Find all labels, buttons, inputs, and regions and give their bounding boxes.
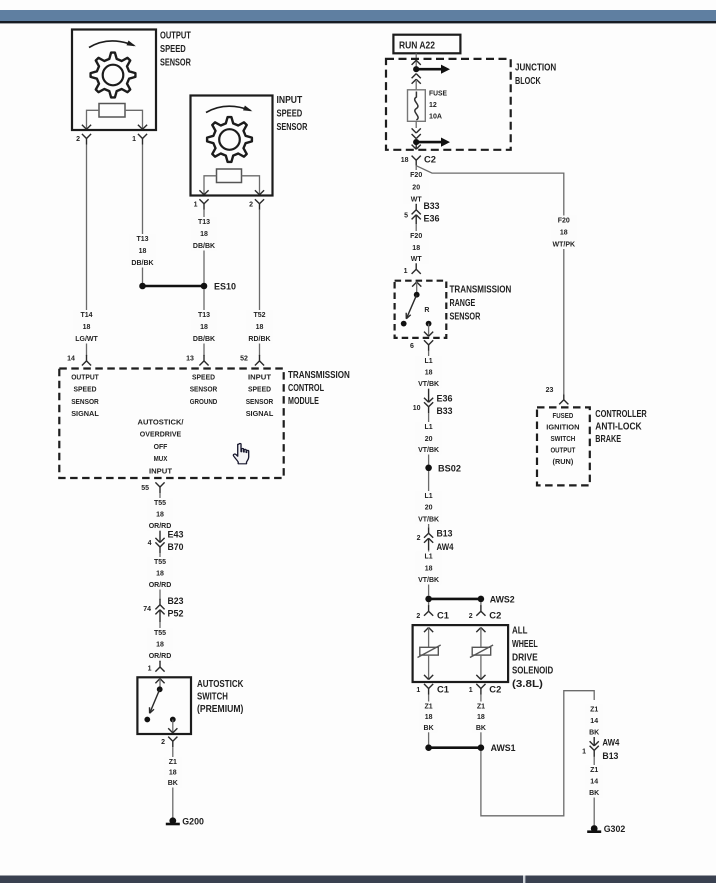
svg-text:1: 1 <box>148 666 152 673</box>
label L1 20 VT/BK (2) <box>416 491 442 524</box>
TRS entry arrow <box>412 282 417 287</box>
wire to TRS (F20 18 WT) <box>415 224 417 264</box>
svg-text:23: 23 <box>546 387 554 394</box>
connector pin 1 of output sensor <box>138 134 143 139</box>
svg-text:F20: F20 <box>410 172 422 179</box>
svg-text:TRANSMISSION: TRANSMISSION <box>288 370 350 381</box>
junction block top feed arrow <box>419 68 442 71</box>
junction block bottom feed arrow <box>419 141 442 144</box>
branch wire to controller anti-lock brake <box>416 166 564 395</box>
svg-text:18: 18 <box>560 230 568 237</box>
svg-text:18: 18 <box>200 231 208 238</box>
input speed sensor box <box>191 96 273 196</box>
splice dot left <box>139 283 146 290</box>
svg-text:SENSOR: SENSOR <box>160 58 191 69</box>
label F20 20 WT <box>403 170 429 204</box>
svg-text:BRAKE: BRAKE <box>595 434 621 445</box>
splice ES10 dot <box>201 283 208 290</box>
svg-text:B13: B13 <box>602 751 618 761</box>
svg-text:12: 12 <box>429 102 437 109</box>
svg-text:TRANSMISSION: TRANSMISSION <box>450 285 512 296</box>
AWS1 dot left <box>425 744 432 751</box>
TRS R wire + exit arrow <box>428 324 430 337</box>
solenoid C1 bottom connector <box>424 684 429 689</box>
svg-text:B70: B70 <box>168 542 184 552</box>
svg-text:18: 18 <box>200 324 208 331</box>
svg-text:(3.8L): (3.8L) <box>512 679 543 690</box>
TCM pin 13 connector <box>203 355 205 361</box>
solenoid left exit wire + arrow <box>428 655 430 679</box>
label Z1 18 BK (autostick) <box>164 757 182 788</box>
svg-text:BK: BK <box>476 725 486 732</box>
svg-text:B23: B23 <box>168 596 184 606</box>
autostick output contact <box>170 717 176 723</box>
TRS common contact dot <box>414 292 420 298</box>
wire Z1 18 BK to ground <box>172 747 174 817</box>
TRS R contact dot <box>426 321 432 327</box>
svg-text:RANGE: RANGE <box>450 298 476 309</box>
svg-text:1: 1 <box>132 136 136 143</box>
solenoid right entry arrow <box>476 628 481 633</box>
svg-text:L1: L1 <box>425 493 433 500</box>
wire L1 18 VT/BK to AWS2 <box>428 550 430 596</box>
connector C2 of junction block <box>412 156 417 161</box>
svg-text:14: 14 <box>590 779 598 786</box>
wire L1 18 VT/BK below TRS <box>428 351 430 389</box>
svg-text:L1: L1 <box>425 554 433 561</box>
svg-text:WHEEL: WHEEL <box>512 639 538 650</box>
autostick lever target contact <box>144 717 150 723</box>
TRS pin 1 connector <box>415 263 417 269</box>
controller anti-lock brake dashed box <box>537 407 590 485</box>
svg-text:VT/BK: VT/BK <box>418 577 439 584</box>
wire resistor to pin 2 <box>87 110 100 128</box>
svg-text:VT/BK: VT/BK <box>418 447 439 454</box>
svg-text:Z1: Z1 <box>590 707 598 714</box>
label T55 18 OR/RD (1) <box>147 498 173 531</box>
svg-text:(RUN): (RUN) <box>553 459 574 466</box>
svg-text:2: 2 <box>417 535 421 542</box>
pin 1 exit arrow (input) <box>199 190 204 195</box>
svg-text:20: 20 <box>425 505 433 512</box>
svg-text:SPEED: SPEED <box>74 385 98 394</box>
wire resistor to pin 1 (input) <box>204 176 217 194</box>
wire T14 18 LG/WT pin2 to TCM pin 14 <box>86 145 88 356</box>
svg-text:BK: BK <box>168 780 178 787</box>
label T13 18 DB/BK (input sensor) <box>191 217 217 251</box>
svg-text:JUNCTION: JUNCTION <box>515 63 556 74</box>
output speed sensor box <box>72 30 156 131</box>
svg-text:E43: E43 <box>168 530 184 540</box>
label T13 18 DB/BK (output sensor) <box>130 234 156 268</box>
svg-text:GROUND: GROUND <box>190 397 218 406</box>
wire to fuse <box>415 81 417 90</box>
svg-text:CONTROL: CONTROL <box>288 383 324 394</box>
svg-text:18: 18 <box>156 642 164 649</box>
bottom status bar <box>0 876 716 883</box>
label F20 18 WT (2) <box>403 231 429 264</box>
junction block top splice dot <box>413 66 419 72</box>
svg-text:SPEED: SPEED <box>160 44 186 55</box>
connector pin 2 of output sensor <box>82 134 87 139</box>
svg-text:18: 18 <box>156 571 164 578</box>
splice AWS2 jumper <box>429 598 481 601</box>
svg-text:20: 20 <box>425 436 433 443</box>
label L1 18 VT/BK (2) <box>416 552 442 585</box>
svg-text:2: 2 <box>469 613 473 620</box>
TCM pin 52 connector <box>259 355 261 361</box>
left solenoid coil <box>420 647 439 655</box>
wire T55 pin 55 down <box>159 493 161 531</box>
solenoid C2 top connector <box>480 602 482 606</box>
input speed sensor gear <box>207 117 252 162</box>
solenoid left entry arrow <box>424 628 429 633</box>
junction block exit arrow <box>415 145 417 149</box>
svg-text:14: 14 <box>590 718 598 725</box>
svg-text:18: 18 <box>156 512 164 519</box>
svg-text:VT/BK: VT/BK <box>418 381 439 388</box>
svg-text:SPEED: SPEED <box>277 109 303 120</box>
connector RUN A22 box <box>393 35 460 54</box>
svg-text:18: 18 <box>425 370 433 377</box>
svg-text:B13: B13 <box>437 529 453 539</box>
AWS2 dot left <box>425 596 432 603</box>
svg-text:OUTPUT: OUTPUT <box>71 373 99 382</box>
AWS2 dot right <box>478 596 485 603</box>
output sensor rotation arrow <box>89 41 134 48</box>
svg-text:MODULE: MODULE <box>288 396 319 407</box>
svg-text:T55: T55 <box>154 500 166 507</box>
TRS lever end contact dot <box>401 321 407 327</box>
svg-text:DB/BK: DB/BK <box>131 260 153 267</box>
connector pin 1 of input sensor <box>199 199 204 204</box>
solenoid C1 top connector <box>428 602 430 606</box>
TCM pin 14 connector <box>86 355 88 361</box>
svg-text:AW4: AW4 <box>602 737 619 747</box>
svg-text:52: 52 <box>240 356 248 363</box>
mouse cursor <box>233 443 248 463</box>
svg-text:BK: BK <box>424 725 434 732</box>
wire T52 18 RD/BK input pin2 to TCM pin 52 <box>259 210 261 356</box>
connector B23 P52 <box>159 599 161 605</box>
svg-text:SENSOR: SENSOR <box>450 312 481 323</box>
label L1 20 VT/BK (1) <box>416 422 442 455</box>
ground G200 <box>169 817 176 824</box>
output speed sensor gear <box>91 53 136 98</box>
svg-text:SIGNAL: SIGNAL <box>71 409 99 418</box>
svg-text:18: 18 <box>83 324 91 331</box>
wire Z1 18 BK right to AWS1 <box>480 695 482 745</box>
svg-text:F20: F20 <box>410 233 422 240</box>
TRS switch lever <box>406 295 416 319</box>
svg-text:B33: B33 <box>424 201 440 211</box>
svg-text:T14: T14 <box>80 312 92 319</box>
svg-text:SPEED: SPEED <box>248 385 272 394</box>
autostick pin 2 connector <box>168 737 173 742</box>
wire resistor to pin 1 <box>125 110 143 128</box>
svg-text:SOLENOID: SOLENOID <box>512 666 553 677</box>
pin 2 exit arrow (input) <box>255 190 260 195</box>
svg-text:ANTI-LOCK: ANTI-LOCK <box>595 422 642 433</box>
svg-text:RUN A22: RUN A22 <box>399 40 435 51</box>
wire below fuse <box>415 121 417 128</box>
svg-text:2: 2 <box>416 613 420 620</box>
svg-text:AWS2: AWS2 <box>490 594 515 605</box>
svg-text:T13: T13 <box>136 236 148 243</box>
svg-text:13: 13 <box>186 356 194 363</box>
svg-text:DB/BK: DB/BK <box>193 336 215 343</box>
svg-text:SENSOR: SENSOR <box>71 397 99 406</box>
svg-text:L1: L1 <box>425 358 433 365</box>
svg-text:5: 5 <box>404 213 408 220</box>
svg-text:2: 2 <box>76 136 80 143</box>
svg-text:OR/RD: OR/RD <box>149 582 172 589</box>
svg-text:G302: G302 <box>604 824 626 835</box>
svg-text:SIGNAL: SIGNAL <box>246 409 274 418</box>
svg-text:18: 18 <box>256 324 264 331</box>
AWS1 dot right <box>478 744 485 751</box>
autostick pin 1 connector <box>159 661 161 667</box>
svg-text:Z1: Z1 <box>477 704 485 711</box>
double chevron above bottom splice <box>412 128 417 133</box>
double chevron below top splice <box>412 74 417 79</box>
svg-text:2: 2 <box>249 202 253 209</box>
wire T13 input pin1 to splice ES10 <box>203 210 205 283</box>
svg-text:F20: F20 <box>558 218 570 225</box>
svg-text:T55: T55 <box>154 630 166 637</box>
svg-text:74: 74 <box>143 606 151 613</box>
svg-text:1: 1 <box>582 749 586 756</box>
svg-text:FUSED: FUSED <box>553 413 574 420</box>
svg-text:1: 1 <box>404 268 408 275</box>
svg-text:SENSOR: SENSOR <box>246 397 274 406</box>
svg-text:OUTPUT: OUTPUT <box>160 30 191 41</box>
svg-text:20: 20 <box>412 185 420 192</box>
input sensor internal resistor <box>217 169 242 183</box>
label Z1 14 BK (upper) <box>585 705 603 738</box>
svg-text:B33: B33 <box>437 406 453 416</box>
wire L1 20 VT/BK to BS02 <box>428 413 430 464</box>
svg-text:BK: BK <box>589 790 599 797</box>
svg-text:AUTOSTICK/: AUTOSTICK/ <box>138 418 185 427</box>
svg-text:P52: P52 <box>168 609 184 619</box>
svg-text:AWS1: AWS1 <box>491 743 517 754</box>
svg-text:IGNITION: IGNITION <box>546 424 579 431</box>
svg-text:1: 1 <box>416 687 420 694</box>
svg-text:1: 1 <box>194 202 198 209</box>
svg-text:L1: L1 <box>425 424 433 431</box>
connector E43 B70 <box>159 531 161 543</box>
svg-text:SWITCH: SWITCH <box>550 436 575 443</box>
autostick entry arrow <box>155 679 160 684</box>
svg-text:10: 10 <box>413 405 421 412</box>
svg-text:ALL: ALL <box>512 626 527 637</box>
svg-text:4: 4 <box>148 540 152 547</box>
wire T55 to autostick switch <box>159 622 161 662</box>
svg-text:OR/RD: OR/RD <box>149 653 172 660</box>
label L1 18 VT/BK (1) <box>416 356 442 389</box>
transmission control module dashed box <box>59 369 283 479</box>
svg-text:G200: G200 <box>182 816 204 827</box>
svg-text:C2: C2 <box>424 155 436 165</box>
svg-text:WT: WT <box>411 256 423 263</box>
wire AWS1 to ground riser <box>481 691 594 816</box>
connector AW4 B13 <box>593 737 595 746</box>
svg-text:18: 18 <box>169 770 177 777</box>
svg-text:R: R <box>424 307 429 314</box>
svg-text:T55: T55 <box>154 559 166 566</box>
svg-text:E36: E36 <box>437 394 453 404</box>
right solenoid coil <box>472 647 491 655</box>
svg-text:BK: BK <box>589 730 599 737</box>
svg-text:Z1: Z1 <box>169 759 177 766</box>
svg-text:18: 18 <box>139 248 147 255</box>
junction block bottom splice dot <box>413 139 419 145</box>
svg-text:OFF: OFF <box>154 442 168 451</box>
label Z1 14 BK (lower) <box>585 765 603 798</box>
wire resistor to pin 2 (input) <box>242 176 260 194</box>
ground G302 <box>591 825 598 832</box>
svg-text:E36: E36 <box>424 214 440 224</box>
svg-text:2: 2 <box>161 739 165 746</box>
label T55 18 OR/RD (3) <box>147 628 173 661</box>
pin 2 exit arrow <box>82 125 87 130</box>
svg-text:Z1: Z1 <box>425 704 433 711</box>
svg-text:18: 18 <box>401 157 409 164</box>
label Z1 18 BK (right) <box>472 702 490 733</box>
transmission range sensor dashed box <box>395 281 447 338</box>
svg-text:SENSOR: SENSOR <box>277 122 308 133</box>
wire RUN A22 into junction block <box>415 53 417 66</box>
svg-text:BS02: BS02 <box>438 463 461 474</box>
svg-text:MUX: MUX <box>154 454 168 463</box>
autostick switch lever <box>150 689 160 713</box>
svg-text:14: 14 <box>67 356 75 363</box>
label Z1 18 BK (left) <box>420 702 438 733</box>
solenoid right exit wire + arrow <box>480 655 482 679</box>
connector pin 2 of input sensor <box>255 199 260 204</box>
autostick switch box <box>137 677 191 734</box>
svg-text:C2: C2 <box>489 685 501 695</box>
label T13 18 DB/BK (to TCM) <box>191 310 217 344</box>
svg-text:AUTOSTICK: AUTOSTICK <box>197 679 244 690</box>
svg-text:BLOCK: BLOCK <box>515 76 541 87</box>
wire C2 down (F20 20 WT) <box>415 166 417 205</box>
splice jumper to ES10 <box>143 285 205 288</box>
svg-text:ES10: ES10 <box>214 282 236 293</box>
label T52 18 RD/BK <box>247 310 273 344</box>
wire BS02 down <box>428 471 430 527</box>
svg-text:INPUT: INPUT <box>248 373 271 382</box>
svg-text:WT: WT <box>411 197 423 204</box>
svg-text:18: 18 <box>412 245 420 252</box>
splice AWS1 jumper <box>429 746 481 749</box>
autostick switch common contact <box>157 686 163 692</box>
junction block entry arrow <box>412 60 417 65</box>
solenoid C2 bottom connector <box>476 684 481 689</box>
svg-text:6: 6 <box>410 343 414 350</box>
svg-text:SWITCH: SWITCH <box>197 692 228 703</box>
svg-text:CONTROLLER: CONTROLLER <box>595 409 647 420</box>
svg-text:LG/WT: LG/WT <box>75 336 98 343</box>
TCM pin 55 connector <box>155 482 160 487</box>
svg-text:INPUT: INPUT <box>277 95 303 106</box>
svg-text:1: 1 <box>469 687 473 694</box>
label T55 18 OR/RD (2) <box>147 557 173 590</box>
wire Z1 14 BK to G302 <box>593 757 595 825</box>
svg-text:SENSOR: SENSOR <box>190 385 218 394</box>
svg-text:WT/PK: WT/PK <box>553 242 576 249</box>
connector B33 E36 <box>415 204 417 210</box>
top toolbar bar <box>0 10 716 21</box>
svg-text:OUTPUT: OUTPUT <box>550 447 576 454</box>
output sensor internal resistor <box>99 104 125 118</box>
svg-text:OVERDRIVE: OVERDRIVE <box>140 430 181 439</box>
svg-text:18: 18 <box>477 714 485 721</box>
autostick output wire + exit arrow <box>172 720 174 733</box>
label F20 18 WT/PK <box>551 216 577 250</box>
TRS pin 6 connector <box>424 340 429 345</box>
svg-text:DRIVE: DRIVE <box>512 652 538 663</box>
svg-text:SPEED: SPEED <box>192 373 216 382</box>
svg-text:Z1: Z1 <box>590 767 598 774</box>
input sensor rotation arrow <box>206 106 251 112</box>
svg-text:T52: T52 <box>253 312 265 319</box>
wire T13 output pin1 down to splice <box>142 145 144 284</box>
wire T55 between connectors <box>159 553 161 600</box>
svg-text:C1: C1 <box>437 685 449 695</box>
svg-text:AW4: AW4 <box>437 542 454 552</box>
svg-text:T13: T13 <box>198 312 210 319</box>
svg-text:(PREMIUM): (PREMIUM) <box>197 704 243 715</box>
svg-text:DB/BK: DB/BK <box>193 243 215 250</box>
wire Z1 18 BK left to AWS1 <box>428 695 430 745</box>
label T14 18 LG/WT <box>74 310 100 344</box>
svg-text:FUSE: FUSE <box>429 91 447 98</box>
junction block dashed box <box>386 59 511 150</box>
svg-text:RD/BK: RD/BK <box>248 336 270 343</box>
svg-text:C1: C1 <box>437 611 449 621</box>
svg-text:T13: T13 <box>198 219 210 226</box>
svg-text:55: 55 <box>141 485 149 492</box>
svg-text:10A: 10A <box>429 114 442 121</box>
svg-text:18: 18 <box>425 714 433 721</box>
connector B13 AW4 <box>428 527 430 533</box>
pin 1 exit arrow <box>138 125 143 130</box>
fuse 12 10A <box>408 90 426 122</box>
svg-text:VT/BK: VT/BK <box>418 517 439 524</box>
CAB pin 23 connector <box>563 394 565 400</box>
wire ES10 to TCM pin 13 <box>203 289 205 356</box>
svg-text:18: 18 <box>425 566 433 573</box>
connector E36 B33 <box>428 389 430 402</box>
splice BS02 <box>425 465 432 472</box>
svg-text:INPUT: INPUT <box>149 466 172 475</box>
svg-text:C2: C2 <box>489 611 501 621</box>
all wheel drive solenoid box <box>413 625 509 682</box>
